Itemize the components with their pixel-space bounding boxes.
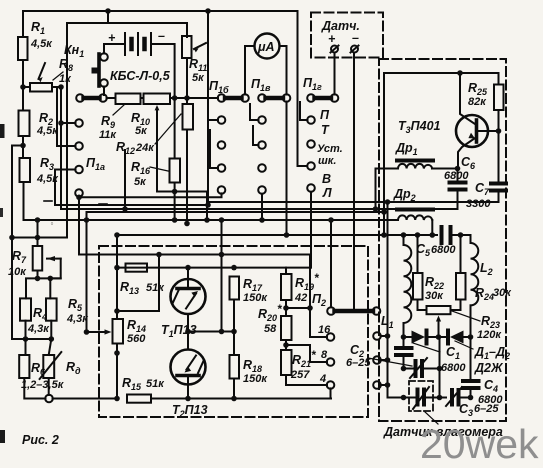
connector Datch dashed box [311, 13, 383, 58]
svg-text:R25: R25 [468, 81, 488, 97]
svg-text:5к: 5к [134, 176, 147, 188]
node R4 bottom [23, 336, 29, 342]
dashed box sensor [409, 381, 433, 411]
svg-text:R19*: R19* [295, 271, 320, 292]
wire R10 wiper to R16 node [157, 192, 207, 221]
svg-text:5к: 5к [192, 72, 205, 84]
wire battery box top [67, 23, 187, 238]
svg-text:51к: 51к [146, 378, 165, 390]
wire sensor bottom row [388, 397, 415, 399]
svg-text:20wek: 20wek [420, 421, 539, 467]
transistor T2 [171, 350, 208, 420]
capacitor C6 [444, 155, 476, 209]
svg-text:+: + [108, 31, 116, 45]
svg-text:30к: 30к [493, 287, 512, 299]
svg-text:6800: 6800 [441, 362, 466, 374]
capacitor C4 [463, 337, 503, 406]
svg-text:R1: R1 [31, 20, 45, 36]
transistor T1 [161, 268, 206, 350]
wire bottom bus left [53, 398, 118, 400]
switch P1a contacts [55, 87, 327, 337]
svg-text:Т2П13: Т2П13 [172, 403, 208, 419]
node R14 top [114, 308, 120, 314]
node R22 top [415, 232, 421, 238]
svg-text:3300: 3300 [466, 198, 491, 210]
wire base node to R14 top [117, 310, 159, 312]
switch P1a movable contact [76, 94, 115, 102]
label D1 D2 type [455, 341, 510, 375]
node R8 right [58, 84, 64, 90]
wire P1v bar down [286, 102, 288, 236]
svg-text:П: П [320, 108, 330, 122]
svg-text:4,3к: 4,3к [66, 313, 89, 325]
node x388 row336 [385, 333, 391, 339]
wire bus212 [87, 211, 385, 213]
potentiometer R10 [131, 94, 187, 192]
node T1 collector top [185, 265, 191, 271]
svg-text:С4: С4 [484, 378, 498, 394]
switch P1b movable contact [209, 79, 249, 102]
wire bus205 [55, 204, 208, 206]
resistor R19 [281, 268, 320, 304]
switch P1v contacts [250, 104, 266, 223]
node C1 bottom [401, 366, 407, 372]
node bus223 x187 [184, 221, 190, 227]
svg-text:42: 42 [294, 292, 307, 304]
resistor R6 [19, 339, 65, 399]
svg-text:R23: R23 [481, 314, 500, 330]
svg-text:6800: 6800 [478, 394, 503, 406]
node R16 bottom wiper [172, 189, 178, 195]
wire bus202 [208, 201, 499, 203]
svg-text:μА: μА [257, 40, 275, 54]
microammeter [245, 34, 287, 95]
node R2-R3 [20, 143, 26, 149]
wire diode row [404, 336, 412, 338]
wire x108 down [107, 11, 109, 23]
svg-text:120к: 120к [477, 329, 502, 341]
svg-text:24к: 24к [135, 142, 155, 154]
svg-text:Д2Ж: Д2Ж [474, 361, 504, 375]
scan artifact left mid [0, 208, 3, 217]
wire oscillator top rail [384, 73, 499, 235]
node C2 right [437, 366, 443, 372]
node diode row left [401, 334, 407, 340]
resistor R9 [99, 94, 144, 142]
wire top bus [23, 11, 307, 166]
resistor R12 [116, 98, 193, 224]
switch P1b contacts [79, 106, 225, 197]
switch P1v movable contact [251, 77, 290, 102]
label C2 [346, 343, 412, 369]
svg-text:–: – [352, 31, 359, 45]
node Kn1 bottom [103, 94, 105, 96]
svg-text:R9: R9 [101, 114, 115, 130]
node R1-R8 [20, 84, 26, 90]
node base riser top [156, 252, 162, 258]
node R16 bus218 [172, 217, 178, 223]
wire bus207 [61, 208, 458, 210]
svg-text:150к: 150к [243, 373, 268, 385]
node base row x221 [219, 252, 225, 258]
wire interstage row [188, 331, 234, 333]
wire row98 to P1b [187, 97, 218, 99]
svg-text:82к: 82к [468, 96, 487, 108]
svg-text:R14: R14 [127, 318, 146, 334]
svg-text:КБС-Л-0,5: КБС-Л-0,5 [110, 69, 171, 83]
wire bottom bus mid [151, 398, 331, 400]
svg-text:150к: 150к [243, 292, 268, 304]
svg-text:1к: 1к [59, 73, 72, 85]
svg-text:С7: С7 [475, 181, 490, 197]
scan artifact left lower [0, 430, 5, 443]
svg-text:–: – [158, 29, 165, 43]
wire Datch plus down [334, 53, 336, 95]
inductor L1 [404, 235, 412, 337]
svg-text:4: 4 [319, 373, 326, 385]
trimmer C2 [404, 358, 440, 378]
svg-text:Rд: Rд [66, 360, 81, 376]
node x117 bus233 [114, 232, 120, 238]
capacitor C7 [466, 181, 506, 210]
resistor R5 [46, 278, 89, 339]
node L1 top [401, 232, 407, 238]
svg-text:5к: 5к [135, 125, 148, 137]
svg-text:Т3П401: Т3П401 [398, 119, 441, 135]
wire x208 supply down [207, 11, 209, 202]
svg-text:Д1–Д2: Д1–Д2 [474, 345, 510, 361]
rheostat R11 [182, 36, 207, 95]
node R24 top [458, 232, 464, 238]
potentiometer R23 [427, 306, 503, 341]
svg-text:L2: L2 [480, 261, 493, 277]
switch P2 contacts left [286, 305, 334, 398]
switch P2 movable contact [312, 217, 380, 315]
svg-text:R21*: R21* [292, 348, 317, 369]
node R5 top [48, 276, 54, 282]
node top bus junction x108 [105, 8, 111, 14]
resistor R24 [451, 235, 513, 310]
svg-text:R16: R16 [131, 160, 151, 176]
node R14-R15 [114, 350, 120, 356]
svg-text:П2: П2 [312, 292, 326, 308]
node R19-R20 [283, 305, 289, 311]
svg-text:R17: R17 [243, 277, 263, 293]
svg-text:R18: R18 [243, 358, 262, 374]
resistor R4 [20, 298, 50, 339]
svg-text:6–25: 6–25 [346, 357, 371, 369]
svg-text:58: 58 [264, 323, 277, 335]
wire C5 row right [455, 235, 471, 243]
node R18 bottom [231, 396, 237, 402]
switch P1g contacts [300, 102, 343, 268]
node R20-R21 [283, 342, 289, 348]
svg-text:51к: 51к [146, 282, 165, 294]
resistor R17 [230, 277, 269, 332]
node T2 bottom [185, 396, 191, 402]
resistor R15 [122, 376, 165, 403]
node bus237 x12 [9, 235, 15, 241]
potentiometer R7 [8, 217, 61, 278]
wire row339 [24, 338, 51, 340]
node C4 bottom [468, 395, 474, 401]
node R7 bottom [35, 276, 41, 282]
svg-text:257: 257 [290, 369, 310, 381]
svg-text:П1б: П1б [209, 79, 229, 95]
svg-text:В: В [322, 172, 331, 186]
wire base node riser [158, 255, 160, 312]
sensor capacitor [413, 387, 446, 424]
svg-text:Л: Л [322, 186, 332, 200]
svg-text:R20*: R20* [258, 302, 283, 323]
node R14 bottom row [114, 396, 120, 402]
node interstage x221 [219, 329, 225, 335]
node interstage [185, 329, 191, 335]
node R13 left [114, 265, 120, 271]
svg-text:+: + [328, 32, 336, 46]
node bus202 x387 [385, 199, 391, 205]
transistor T3 [398, 73, 499, 169]
node diode row right [468, 334, 474, 340]
svg-text:6800: 6800 [431, 244, 456, 256]
svg-text:R13: R13 [120, 280, 139, 296]
node sensor row left [401, 395, 407, 401]
svg-text:Кн1: Кн1 [64, 43, 84, 59]
resistor R20 [258, 300, 292, 340]
node x388 row360 [385, 357, 391, 363]
svg-text:30к: 30к [425, 290, 444, 302]
choke Dr1 [373, 141, 458, 212]
svg-text:шк.: шк. [318, 155, 336, 167]
wire bus237 R7 feed [12, 237, 67, 239]
capacitor C1 [396, 337, 466, 374]
svg-text:560: 560 [127, 333, 146, 345]
svg-text:4,5к: 4,5к [30, 38, 53, 50]
resistor R25 [468, 73, 504, 183]
node x86 arrow row [84, 329, 90, 335]
node sensor terminal circle [45, 395, 53, 403]
svg-text:R8: R8 [59, 57, 73, 73]
svg-text:П1г: П1г [303, 76, 322, 92]
svg-text:Др2: Др2 [393, 187, 416, 203]
resistor R3 [20, 156, 60, 220]
diode D1 [412, 331, 447, 344]
resistor R2 [19, 87, 60, 158]
node Dr1 C6 [455, 166, 461, 172]
node interstage x234 [231, 329, 237, 335]
switch P2 contacts right [373, 202, 387, 398]
svg-text:R22: R22 [425, 275, 444, 291]
wire diode mid down [438, 319, 440, 337]
svg-text:4,3к: 4,3к [27, 323, 50, 335]
mark polarity dash [44, 200, 52, 202]
wire left branch x12 [12, 146, 24, 340]
node bus212 x384 [381, 209, 387, 215]
svg-text:R3: R3 [40, 156, 54, 172]
wire x86 down to R14 arrow [86, 212, 88, 332]
resistor R22 [413, 235, 444, 310]
svg-text:Т: Т [321, 123, 330, 137]
scan artifact left upper [0, 124, 5, 138]
resistor R1 [18, 20, 53, 87]
node bus218 x52 [51, 222, 53, 224]
svg-text:С1: С1 [446, 345, 460, 361]
node bus235 P1v [284, 232, 290, 238]
node Dr2 bottom [430, 232, 436, 238]
inductor L2 [471, 243, 493, 337]
dashed box oscillator [379, 59, 506, 421]
svg-text:Рис. 2: Рис. 2 [22, 433, 59, 447]
resistor R21 [281, 340, 317, 385]
svg-text:С3: С3 [459, 402, 473, 418]
trimmer C3 [446, 387, 499, 418]
node top bus junction x208 [205, 8, 211, 14]
node sensor row mid [437, 395, 443, 401]
node R10 right [172, 95, 178, 101]
svg-text:Уст.: Уст. [317, 143, 343, 155]
node R12 top [184, 95, 190, 101]
resistor R18 [230, 332, 269, 399]
diode D2 [448, 331, 471, 344]
node T3 base R25 [496, 128, 502, 134]
node bus205 x208 [205, 202, 211, 208]
svg-text:6800: 6800 [444, 170, 469, 182]
connector Datch labels [321, 19, 360, 53]
svg-text:R15: R15 [122, 376, 142, 392]
pushbutton Kn1 [64, 43, 108, 95]
node bus223 x86 [84, 217, 90, 223]
trimmer R14 [87, 318, 147, 399]
svg-text:R5: R5 [68, 297, 83, 313]
svg-text:Др1: Др1 [395, 141, 418, 157]
wire x117 R13 column [116, 235, 118, 319]
svg-text:R7: R7 [12, 249, 27, 265]
wire R13 row [117, 267, 311, 269]
svg-text:П1в: П1в [251, 77, 271, 93]
choke Dr2 [393, 187, 433, 235]
svg-text:С6: С6 [461, 155, 476, 171]
wire bus235 [117, 234, 437, 236]
variable resistor Rd [40, 339, 81, 395]
wire riser x221 [221, 220, 223, 255]
svg-text:R4: R4 [33, 306, 47, 322]
node T3 collector top [457, 70, 463, 76]
switch P1g movable contact [303, 76, 338, 102]
svg-text:11к: 11к [99, 129, 117, 141]
wire Datch minus down to P2 [353, 53, 355, 312]
node x207 bus218 [204, 217, 210, 223]
node x388 row385 [385, 382, 391, 388]
svg-text:4,5к: 4,5к [36, 125, 59, 137]
potentiometer R8 [23, 57, 73, 92]
node R17 top [231, 265, 237, 271]
svg-text:R11: R11 [189, 57, 207, 73]
resistor R13 [120, 264, 165, 297]
svg-text:П1а: П1а [86, 156, 105, 172]
capacitor C5 [416, 227, 461, 258]
node bus235 x384 [381, 232, 387, 238]
resistor R16 [131, 98, 180, 220]
svg-text:10к: 10к [8, 266, 27, 278]
battery KBS-L-0,5 [104, 29, 175, 95]
node R5 bottom [49, 336, 55, 342]
wire bus220 [24, 219, 399, 221]
svg-text:1,2–3,5к: 1,2–3,5к [21, 379, 65, 391]
node diode mid [436, 334, 442, 340]
dashed box amplifier [99, 246, 368, 417]
wire R7 bottom row [26, 278, 61, 298]
